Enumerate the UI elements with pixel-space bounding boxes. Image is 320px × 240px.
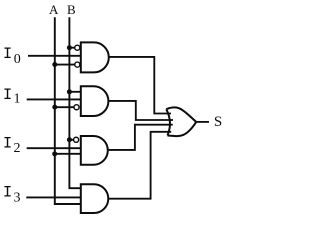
wire I3	[26, 196, 81, 198]
svg-text:0: 0	[14, 52, 21, 67]
wire: B line to U3 top inverted input	[69, 139, 73, 141]
OR gate U5 (output S)	[166, 107, 196, 136]
node: junction dot on B at U1 top input	[67, 45, 72, 50]
select line B (vertical wire, bends into gate U4 top input)	[69, 17, 80, 188]
svg-text:B: B	[67, 2, 76, 17]
wire I0	[28, 55, 82, 57]
wire: OR output to S	[196, 121, 209, 123]
svg-text:1: 1	[14, 91, 21, 106]
wire I2	[27, 147, 82, 149]
svg-text:3: 3	[14, 191, 21, 206]
node: junction dot on A at U2 bottom input	[52, 105, 57, 110]
svg-text:I: I	[3, 45, 12, 63]
AND gate U4 (inputs B A I3)	[81, 184, 109, 213]
label I3	[3, 184, 21, 206]
node: junction dot on A at U1 bottom input	[52, 62, 57, 67]
svg-text:I: I	[3, 86, 12, 104]
AND gate U3 (inputs notB A I2)	[81, 136, 108, 165]
wire: B line to U2 top input	[69, 91, 81, 93]
label I0	[3, 45, 21, 67]
svg-text:I: I	[3, 184, 12, 202]
svg-text:A: A	[49, 2, 59, 17]
wire: U1 output to OR input 1	[109, 57, 171, 114]
node: junction dot on B at U3 top input	[67, 137, 72, 142]
wire: U4 output to OR input 4	[108, 132, 171, 199]
label I2	[3, 135, 21, 157]
wire: A line to U1 bottom inverted input	[55, 64, 75, 66]
node: junction dot on B at U2 top input	[67, 89, 72, 94]
wire: A line to U2 bottom inverted input	[55, 106, 74, 108]
wire: B line to U1 top inverted input	[69, 47, 74, 49]
inverter bubble at U3 top input	[74, 137, 79, 142]
select line A (vertical wire, bends into gate U4 bottom input)	[55, 17, 81, 204]
inverter bubble at U1 top input	[75, 45, 80, 50]
inverter bubble at U2 bottom input	[74, 105, 79, 110]
node: junction dot on A at U3 bottom input	[52, 151, 57, 156]
inverter bubble at U1 bottom input	[75, 62, 80, 67]
AND gate U2 (inputs B notA I1)	[81, 86, 109, 116]
svg-text:I: I	[3, 135, 12, 153]
wire I1	[27, 98, 82, 100]
wire: A line to U3 bottom input	[55, 153, 81, 155]
AND gate U1 (inputs notA notB I0)	[81, 42, 109, 72]
label I1	[3, 86, 21, 106]
wire: U2 output to OR input 2	[108, 101, 173, 120]
wire: U3 output to OR input 3	[108, 125, 173, 150]
svg-text:2: 2	[14, 141, 21, 156]
svg-text:S: S	[214, 114, 222, 130]
